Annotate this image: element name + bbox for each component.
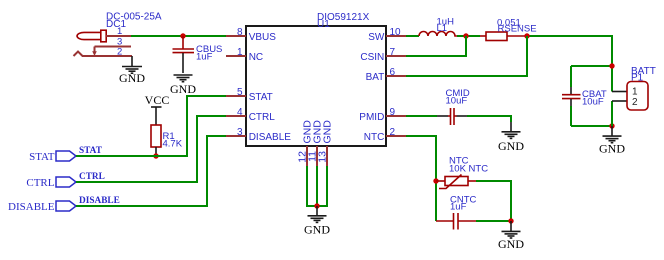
svg-text:GND: GND: [599, 142, 625, 156]
ground symbol at battery rail: [603, 126, 622, 143]
svg-text:U1: U1: [317, 19, 330, 30]
svg-text:10K NTC: 10K NTC: [449, 164, 488, 175]
svg-text:GND: GND: [304, 222, 330, 236]
svg-text:2: 2: [390, 127, 396, 138]
ground symbol at CBUS: [174, 75, 193, 82]
capacitor CNTC: [436, 213, 476, 230]
svg-text:GND: GND: [170, 82, 196, 96]
svg-text:P1: P1: [631, 73, 644, 84]
svg-text:STAT: STAT: [79, 146, 103, 156]
connector P1 pin 1 stub: [612, 91, 627, 93]
wire CMID to ground: [467, 116, 511, 122]
wire U1 ground pins to GND: [307, 166, 327, 206]
svg-text:STAT: STAT: [249, 92, 273, 103]
inductor L1: [419, 32, 457, 37]
DC1 pin 2 lead with sleeve caret: [74, 52, 133, 57]
svg-text:4.7K: 4.7K: [163, 139, 183, 150]
wire CTRL net: [76, 116, 226, 182]
wire L1 to RSENSE: [457, 35, 480, 37]
svg-text:8: 8: [237, 27, 243, 38]
junction at R1 / STAT wire: [153, 153, 158, 158]
wire VBUS net from DC1 pin1 to U1 pin 8: [131, 35, 226, 37]
U1 pin 8 stub: [226, 35, 246, 37]
U1 pin 4 stub: [226, 115, 246, 117]
U1 pin 12 stub: [306, 146, 308, 166]
wire NTC to ground column: [476, 181, 511, 221]
wire RSENSE to BATT column: [525, 36, 612, 92]
svg-text:DISABLE: DISABLE: [249, 132, 292, 143]
port STAT flag: [56, 151, 76, 161]
U1 pin 13 stub: [326, 146, 328, 166]
U1 pin 5 stub: [226, 95, 246, 97]
svg-text:DISABLE: DISABLE: [79, 196, 120, 206]
svg-text:CTRL: CTRL: [26, 177, 54, 189]
junction at U1 GND join: [314, 203, 319, 208]
wire CBAT bottom rail: [571, 125, 612, 127]
svg-text:1uF: 1uF: [196, 52, 213, 63]
svg-text:STAT: STAT: [29, 151, 55, 163]
svg-text:DISABLE: DISABLE: [8, 201, 55, 213]
svg-text:10: 10: [390, 27, 402, 38]
DC1 pin 3 lead: [95, 46, 132, 48]
wire CSIN sense: [406, 36, 466, 56]
U1 pin 2 stub: [386, 135, 406, 137]
U1 pin 10 stub: [386, 35, 406, 37]
U1 pin 7 stub: [386, 55, 406, 57]
svg-text:L1: L1: [437, 23, 448, 34]
svg-text:CTRL: CTRL: [249, 112, 276, 123]
wire STAT net: [76, 96, 226, 156]
wire DISABLE net: [76, 136, 226, 206]
svg-text:1: 1: [117, 26, 122, 37]
resistor RSENSE: [480, 32, 525, 41]
junction at CNTC ground: [508, 218, 513, 223]
svg-text:PMID: PMID: [359, 112, 384, 123]
connector P1 body: [627, 82, 648, 111]
U1 pin 6 stub: [386, 75, 406, 77]
wire NTC pin net: [406, 136, 436, 221]
svg-text:GND: GND: [498, 139, 524, 153]
capacitor CMID: [406, 108, 467, 125]
ground symbol at CNTC: [502, 221, 521, 238]
junction at CSIN tap: [463, 33, 468, 38]
thermistor NTC: [436, 175, 476, 189]
svg-text:3: 3: [237, 127, 243, 138]
svg-text:GND: GND: [322, 120, 334, 144]
capacitor CBAT: [562, 66, 581, 126]
ground symbol at DC1: [122, 56, 142, 73]
R1 bottom lead: [155, 147, 157, 156]
U1 pin 11 stub: [316, 146, 318, 166]
connector P1 pin 2 stub: [612, 100, 627, 102]
svg-text:RSENSE: RSENSE: [498, 24, 537, 35]
resistor R1: [151, 125, 161, 147]
svg-text:13: 13: [317, 151, 329, 163]
svg-text:CTRL: CTRL: [79, 172, 105, 182]
port CTRL flag: [56, 177, 76, 187]
svg-text:VBUS: VBUS: [249, 32, 277, 43]
wire pin 11 down: [316, 166, 318, 206]
svg-text:GND: GND: [498, 237, 524, 251]
ground symbol below U1: [308, 206, 327, 222]
svg-text:10uF: 10uF: [446, 96, 468, 107]
svg-text:1: 1: [237, 47, 243, 58]
wire BAT sense: [406, 36, 527, 76]
wire CNTC to ground: [476, 220, 511, 222]
svg-text:2: 2: [117, 46, 122, 57]
svg-text:VCC: VCC: [145, 93, 170, 107]
capacitor CBUS: [173, 36, 195, 73]
wire CBAT top rail: [571, 65, 612, 67]
svg-text:BAT: BAT: [366, 72, 385, 83]
junction at CBUS tap: [180, 33, 185, 38]
U1 pin 9 stub: [386, 115, 406, 117]
port DISABLE flag: [56, 201, 76, 211]
DC1 switch arrow: [92, 47, 97, 57]
DC1 pin 1 lead: [106, 35, 131, 37]
junction at NTC tap: [433, 178, 438, 183]
svg-text:CSIN: CSIN: [360, 52, 384, 63]
connector DC1 barrel jack body: [77, 30, 106, 42]
svg-text:6: 6: [390, 67, 396, 78]
U1 pin 3 stub: [226, 135, 246, 137]
svg-text:NC: NC: [249, 52, 263, 63]
svg-text:7: 7: [390, 47, 396, 58]
ground symbol at CMID: [502, 122, 521, 138]
U1 pin 1 stub: [226, 55, 246, 57]
wire P1 pin2 to bottom rail: [611, 101, 613, 126]
IC U1 DIO59121X body: [246, 26, 386, 146]
power symbol VCC: [145, 93, 170, 125]
svg-text:1: 1: [632, 87, 638, 98]
junction at CBAT bottom: [609, 123, 614, 128]
svg-text:NTC: NTC: [364, 132, 385, 143]
junction at CBAT top: [609, 63, 614, 68]
wire SW to L1: [406, 35, 419, 37]
svg-text:1uF: 1uF: [450, 202, 467, 213]
svg-text:SW: SW: [368, 32, 385, 43]
svg-text:GND: GND: [119, 71, 145, 85]
svg-text:5: 5: [237, 87, 243, 98]
svg-text:9: 9: [390, 107, 396, 118]
svg-text:2: 2: [632, 97, 638, 108]
svg-text:4: 4: [237, 107, 243, 118]
svg-text:10uF: 10uF: [582, 97, 604, 108]
junction at BAT tap: [524, 33, 529, 38]
